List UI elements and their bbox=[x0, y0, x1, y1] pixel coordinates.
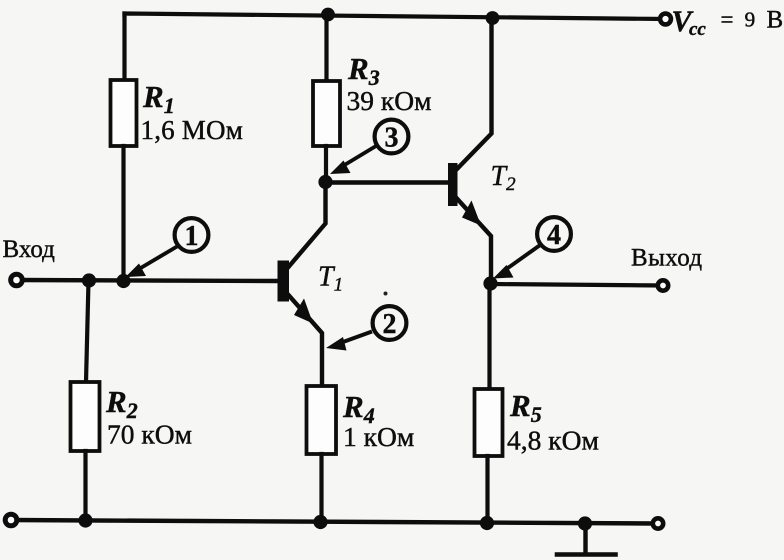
wire T1 collector bbox=[288, 182, 326, 268]
junction top rail / T2 collector bbox=[486, 11, 500, 25]
wire top supply rail bbox=[125, 14, 666, 20]
resistor R5 bbox=[475, 389, 503, 456]
resistor R2 bbox=[71, 382, 100, 451]
junction bottom rail / ground bbox=[578, 516, 592, 530]
wire R5 top lead bbox=[487, 283, 491, 389]
node 3 callout bbox=[330, 120, 408, 174]
wire R5 bottom lead bbox=[485, 456, 489, 523]
wire bottom ground rail bbox=[11, 520, 658, 524]
wire input rail bbox=[17, 280, 279, 281]
terminal input bbox=[11, 274, 23, 286]
wire output bbox=[491, 284, 663, 286]
wire T2 collector bbox=[456, 16, 492, 170]
wire R3 bottom lead bbox=[324, 146, 328, 182]
ground bbox=[557, 524, 616, 555]
terminal Vcc bbox=[660, 14, 671, 25]
wire R3 top lead bbox=[324, 15, 328, 82]
transistor T1 emitter arrowhead bbox=[294, 299, 313, 324]
junction bottom rail / R2 bbox=[78, 513, 92, 527]
wire R2 bottom lead bbox=[83, 451, 87, 521]
wire R4 bottom lead bbox=[319, 454, 323, 522]
svg-text:39 кОм: 39 кОм bbox=[347, 85, 432, 116]
svg-text:В: В bbox=[767, 7, 784, 34]
label Vcc = 9 В bbox=[672, 5, 784, 40]
transistor T1 bbox=[278, 261, 290, 302]
resistor R1 bbox=[111, 80, 137, 146]
junction bottom rail / R4 bbox=[313, 515, 327, 529]
wire T2 base net bbox=[326, 180, 449, 184]
node 4 junction T2 emitter / R5 / output bbox=[483, 276, 497, 290]
wire R2 top lead bbox=[86, 281, 89, 382]
svg-text:9: 9 bbox=[745, 8, 756, 32]
svg-text:4,8 кОм: 4,8 кОм bbox=[507, 425, 599, 456]
node 3 junction R3 / T1 collector / T2 base bbox=[318, 175, 332, 189]
junction top rail / R3 bbox=[321, 8, 335, 22]
transistor T2 bbox=[448, 163, 458, 206]
svg-text:1: 1 bbox=[185, 221, 199, 252]
junction bottom rail / R5 bbox=[480, 516, 494, 530]
svg-text:Выход: Выход bbox=[631, 245, 703, 272]
wire T2 emitter bbox=[456, 198, 491, 284]
svg-text:4: 4 bbox=[547, 220, 561, 251]
transistor T2 emitter arrowhead bbox=[462, 201, 481, 226]
wire T1 emitter bbox=[288, 295, 322, 387]
svg-text:Вход: Вход bbox=[3, 236, 56, 263]
svg-text:=: = bbox=[721, 7, 734, 32]
svg-text:cc: cc bbox=[689, 19, 706, 40]
wire R1 top lead bbox=[122, 14, 126, 81]
node 4 callout bbox=[493, 217, 571, 278]
junction input / R2 bbox=[82, 273, 96, 287]
terminal output bbox=[658, 280, 668, 290]
svg-text:1 кОм: 1 кОм bbox=[343, 421, 414, 452]
node 1 callout bbox=[126, 218, 209, 277]
wire R1 bottom lead bbox=[121, 146, 125, 281]
terminal bottom left bbox=[5, 514, 17, 526]
svg-text:2: 2 bbox=[383, 309, 397, 340]
svg-text:3: 3 bbox=[385, 123, 399, 154]
node 2 callout bbox=[384, 292, 388, 296]
svg-text:1,6 МОм: 1,6 МОм bbox=[141, 115, 244, 145]
resistor R4 bbox=[307, 386, 337, 454]
node 1 junction input / R1 bbox=[116, 274, 130, 288]
svg-text:70 кОм: 70 кОм bbox=[107, 419, 192, 450]
resistor R3 bbox=[313, 81, 340, 146]
terminal bottom right bbox=[653, 518, 663, 528]
